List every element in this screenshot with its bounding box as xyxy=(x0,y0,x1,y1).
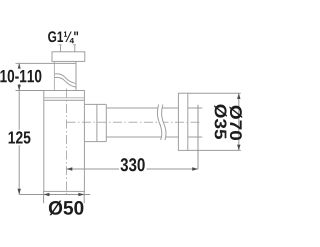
label 10-110 xyxy=(0,70,41,83)
arrow 330 left xyxy=(67,167,73,170)
wall flange xyxy=(178,93,187,150)
outlet boss xyxy=(84,104,106,141)
10-110 extension left at rim top xyxy=(16,90,44,92)
O70 dim line xyxy=(238,93,240,150)
label O35 rotated xyxy=(214,104,227,139)
O70 top extension xyxy=(188,92,241,94)
arrowheads xyxy=(18,63,241,196)
label O50 xyxy=(49,201,83,216)
arrow 125 down xyxy=(18,189,21,195)
bottom dim line 125 + O50 xyxy=(19,194,90,196)
white gap for 10-110 xyxy=(0,69,43,84)
outlet tube xyxy=(106,108,178,137)
rim chamfer line xyxy=(44,97,85,99)
dimension lines xyxy=(16,63,239,203)
arrow 330 right xyxy=(192,167,198,170)
arrow O50 right outward xyxy=(78,193,84,196)
white gap for 125 xyxy=(6,130,32,145)
vertical centerline xyxy=(66,89,68,198)
O70 bottom extension xyxy=(188,149,241,151)
O50 ext verticals xyxy=(44,191,85,203)
telescopic tube xyxy=(53,61,55,90)
flange nut xyxy=(52,52,85,62)
inlet stub ticks xyxy=(59,44,76,46)
wavy break upper xyxy=(54,74,76,84)
label G1 1/4 xyxy=(48,31,78,43)
tube end extensions xyxy=(188,108,203,137)
break mask xyxy=(157,105,166,141)
label 330 xyxy=(120,158,144,171)
330 right extension vertical xyxy=(197,105,199,169)
wavy break lower xyxy=(54,77,76,87)
break curve left xyxy=(157,105,161,141)
trap body xyxy=(44,91,85,192)
arrow O50 left outward xyxy=(44,193,50,196)
330 dim line xyxy=(67,168,199,170)
arrow 10-110 down xyxy=(18,85,21,91)
rim bottom line xyxy=(44,99,85,101)
horizontal centerline xyxy=(67,121,201,123)
collar line / top extension line xyxy=(16,62,77,64)
label 125 xyxy=(9,131,31,143)
arrow O70 down xyxy=(237,145,240,151)
inlet stub pipe xyxy=(61,45,75,52)
shared 10-110 and 125 dim line xyxy=(18,63,20,194)
label O70 rotated xyxy=(230,106,243,140)
arrow 10-110 up xyxy=(18,63,21,69)
arrow O70 up xyxy=(237,93,240,99)
break curve right xyxy=(162,105,166,141)
